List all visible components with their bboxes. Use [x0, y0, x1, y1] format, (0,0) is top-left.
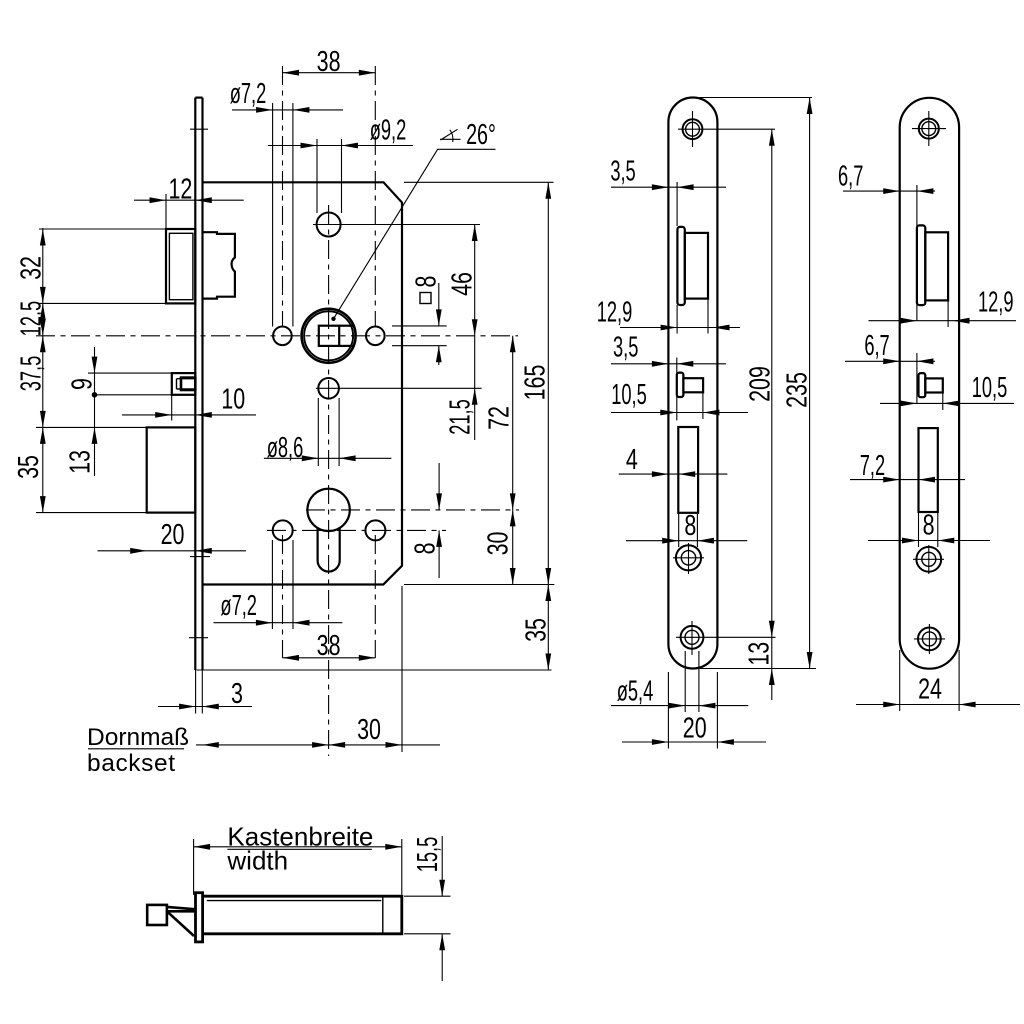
svg-text:ø5,4: ø5,4 — [617, 675, 654, 707]
svg-text:4: 4 — [626, 444, 638, 476]
dimension 12,9 middle plate — [597, 296, 740, 333]
lock case outline — [203, 182, 403, 584]
svg-text:20: 20 — [161, 519, 185, 551]
dimension ø9,2 — [268, 114, 413, 213]
right plate outline — [900, 98, 959, 669]
middle plate latch body — [685, 233, 708, 299]
dimension 7,2 — [850, 450, 965, 483]
svg-text:26°: 26° — [466, 119, 496, 151]
svg-text:8: 8 — [684, 510, 696, 542]
dimension 8 slot right plate — [868, 509, 990, 547]
dimension 10,5 middle plate — [611, 379, 748, 419]
svg-text:35: 35 — [13, 455, 45, 479]
cylinder fixing hole ø8.6 — [318, 378, 339, 399]
svg-text:38: 38 — [317, 630, 341, 662]
bottom view case body — [203, 896, 402, 934]
middle plate mid screw hole — [673, 543, 704, 574]
dimension 38 top — [283, 46, 376, 78]
dimension ø7,2 top — [230, 78, 343, 327]
dimension 20 middle plate — [622, 672, 766, 749]
svg-text:6,7: 6,7 — [838, 160, 863, 192]
dimension 209 and 13 chain — [744, 129, 777, 700]
guard pin (auxiliary bolt) — [172, 373, 196, 395]
svg-text:35: 35 — [520, 618, 552, 642]
svg-text:ø8,6: ø8,6 — [267, 432, 304, 464]
right plate bottom screw hole — [914, 624, 945, 654]
svg-text:235: 235 — [781, 372, 813, 408]
dimension ø8,6 — [264, 398, 392, 466]
square spindle hole 8mm — [319, 326, 339, 346]
lower case stub — [147, 427, 196, 512]
right plate slot — [919, 428, 938, 512]
dimension Kastenbreite width — [194, 822, 402, 895]
extension case bottom right — [404, 584, 554, 586]
svg-text:15,5: 15,5 — [412, 837, 444, 873]
dimension 24 — [856, 650, 1020, 711]
middle plate slot — [678, 427, 698, 513]
dimension 21,5 — [445, 388, 478, 434]
dimension chain 32 / 12,5 / 37,5 / 35 left — [13, 228, 48, 513]
dimension ø7,2 bottom — [214, 540, 343, 629]
dimension 3,5 lower — [611, 331, 726, 420]
svg-text:3,5: 3,5 — [613, 331, 638, 363]
svg-text:13: 13 — [744, 642, 776, 666]
svg-text:ø7,2: ø7,2 — [230, 78, 267, 110]
dimension 15,5 — [404, 836, 451, 981]
dimension 8 slot middle plate — [626, 510, 747, 547]
middle plate outline — [668, 98, 717, 669]
middle plate bottom screw hole — [676, 621, 776, 655]
extension latch top — [39, 228, 166, 230]
extension case right edge down — [401, 586, 403, 752]
centerline horizontal follower axis — [36, 335, 518, 337]
svg-text:24: 24 — [918, 673, 942, 705]
extension middle plate top — [700, 97, 812, 99]
dimension 3,5 upper — [610, 155, 726, 226]
top fixing hole ø9.2 — [317, 213, 341, 237]
svg-text:165: 165 — [519, 365, 551, 401]
dimension 8 right of cylinder — [409, 463, 442, 578]
svg-text:ø9,2: ø9,2 — [370, 114, 407, 146]
dimension 235 — [781, 98, 813, 669]
svg-text:10,5: 10,5 — [611, 379, 647, 411]
bottom view latch bolt bevel — [147, 905, 195, 936]
svg-text:6,7: 6,7 — [864, 330, 889, 362]
svg-text:Dornmaß: Dornmaß — [87, 724, 189, 751]
dimension 12,9 right plate — [869, 286, 1017, 327]
svg-text:72: 72 — [484, 406, 516, 430]
centerline vertical main axis — [328, 205, 330, 756]
bottom hole left ø7.2 — [273, 520, 293, 540]
right plate latch body — [925, 232, 948, 300]
extension stub top — [36, 426, 147, 428]
latch bolt front view — [166, 229, 195, 303]
extension case top right — [404, 181, 554, 183]
centerline left hole column — [282, 66, 284, 658]
svg-text:209: 209 — [744, 366, 776, 402]
follower (handle hub) — [302, 309, 356, 363]
dimension 10,5 right plate — [880, 372, 1014, 410]
extension stub bottom — [36, 512, 147, 514]
dimension 10 — [122, 384, 256, 421]
dimension 72 and 30 right chain — [483, 336, 516, 585]
svg-text:13: 13 — [64, 450, 96, 474]
svg-text:21,5: 21,5 — [445, 399, 477, 435]
centerline right hole column — [374, 66, 376, 658]
dimension 6,7 upper — [838, 160, 935, 321]
svg-text:9: 9 — [66, 378, 98, 390]
svg-text:10,5: 10,5 — [972, 372, 1008, 404]
extension middle plate bottom — [700, 668, 816, 670]
dimension 165 and 35 right chain — [519, 182, 552, 670]
small hole left ø7.2 — [273, 327, 292, 346]
dimension 6,7 lower — [845, 330, 935, 404]
svg-text:3: 3 — [231, 678, 243, 710]
svg-text:3,5: 3,5 — [610, 155, 635, 187]
svg-text:12: 12 — [168, 173, 192, 205]
small hole right ø7.2 — [366, 327, 385, 346]
svg-text:37,5: 37,5 — [15, 356, 47, 392]
dimension 20 case — [98, 519, 247, 554]
extension latch bottom — [39, 302, 166, 304]
svg-text:30: 30 — [357, 714, 381, 746]
latch bolt head — [203, 232, 235, 298]
svg-text:12,5: 12,5 — [15, 301, 47, 337]
svg-text:12,9: 12,9 — [978, 286, 1014, 318]
middle plate deadbolt head — [683, 378, 703, 392]
faceplate (front view, Stulp) — [195, 98, 202, 670]
centerline top hole horizontal — [313, 224, 480, 226]
faceplate screw hole tick bottom — [189, 637, 208, 639]
right plate mid screw hole — [913, 545, 944, 574]
bottom hole right ø7.2 — [365, 520, 385, 540]
right plate deadbolt face — [919, 373, 926, 397]
svg-text:20: 20 — [683, 712, 707, 744]
dimension 46 — [446, 225, 478, 441]
dimension 9 and 13 — [64, 347, 171, 476]
dimension square 8 — [392, 276, 447, 365]
dimension ø5,4 — [611, 651, 748, 712]
centerline bottom holes horizontal — [267, 529, 446, 531]
svg-text:8: 8 — [923, 509, 935, 541]
dimension 3 faceplate thickness — [158, 670, 252, 714]
profile cylinder cutout — [307, 489, 349, 572]
svg-text:38: 38 — [317, 46, 341, 78]
svg-text:32: 32 — [16, 256, 48, 280]
middle plate latch face — [677, 227, 684, 305]
svg-text:backset: backset — [87, 750, 176, 777]
right plate top screw hole — [912, 111, 946, 146]
bottom view faceplate bar — [196, 893, 203, 942]
centerline o8.6 hole horizontal — [316, 387, 482, 389]
faceplate screw hole tick top — [190, 128, 208, 130]
svg-text:46: 46 — [446, 272, 478, 296]
dimension 12 — [134, 173, 244, 229]
svg-text:12,9: 12,9 — [597, 296, 633, 328]
svg-text:width: width — [226, 846, 288, 876]
svg-text:ø7,2: ø7,2 — [220, 590, 257, 622]
svg-text:8: 8 — [410, 276, 442, 288]
right plate latch face — [917, 225, 925, 305]
middle plate deadbolt face — [677, 373, 684, 397]
centerline cylinder hole horizontal — [306, 509, 519, 511]
extension faceplate bottom — [197, 669, 552, 671]
middle plate top screw hole — [678, 111, 775, 147]
angle leader 26 deg — [331, 119, 496, 321]
dimension 4 — [619, 444, 728, 477]
svg-text:30: 30 — [483, 532, 515, 556]
dimension 38 bottom — [283, 630, 376, 662]
svg-text:10: 10 — [221, 384, 245, 416]
faceplate screw hole tick middle — [190, 556, 210, 558]
dimension Dornmass backset 30 — [87, 714, 440, 777]
svg-text:8: 8 — [409, 542, 441, 554]
svg-text:7,2: 7,2 — [860, 450, 885, 482]
right plate deadbolt head — [925, 378, 943, 392]
